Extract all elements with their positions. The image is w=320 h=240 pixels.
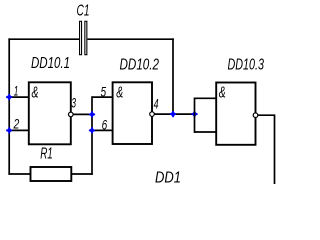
inversion bubble at DD10.3 output — [253, 113, 258, 118]
svg-text:4: 4 — [154, 96, 159, 112]
svg-text:5: 5 — [101, 83, 107, 99]
node: junction dot at gate3 input split — [191, 111, 197, 117]
svg-text:DD10.2: DD10.2 — [120, 57, 160, 74]
wire: gate3 lower input stub — [195, 131, 217, 133]
wire: DD10.1 output to middle rail — [73, 113, 93, 115]
svg-text:C1: C1 — [77, 2, 90, 19]
node: junction dot pin6/middle rail — [89, 127, 95, 133]
svg-text:&: & — [219, 84, 226, 101]
gate U2 DD10.2 body — [113, 82, 152, 144]
wire: pin 2 stub — [9, 129, 29, 131]
capacitor C1 left plate — [80, 21, 82, 54]
svg-text:DD10.1: DD10.1 — [31, 55, 70, 72]
wire: DD10.3 output right then down off-canvas — [258, 115, 275, 184]
wire: top rail right segment (C1 right plate to feedback corner) — [88, 38, 174, 40]
svg-text:3: 3 — [71, 95, 76, 111]
inversion bubble at DD10.2 output — [150, 112, 155, 117]
node: junction dot output3/middle rail — [89, 111, 95, 117]
wire: pin 5 stub — [92, 96, 113, 98]
wire: gate3 upper input stub — [195, 97, 217, 99]
svg-text:DD10.3: DD10.3 — [228, 56, 265, 73]
wire: resistor right to middle rail — [71, 173, 93, 175]
svg-text:&: & — [32, 84, 39, 101]
svg-text:&: & — [116, 84, 123, 101]
svg-text:R1: R1 — [40, 146, 53, 163]
wire: DD10.2 output run to gate3 input split — [154, 113, 194, 115]
wire: middle rail x=92 (pin5 to resistor) — [91, 96, 93, 175]
inversion bubble at DD10.1 output — [69, 112, 74, 117]
svg-text:DD1: DD1 — [155, 170, 181, 184]
wire: left rail x=9 (node A) — [8, 38, 10, 174]
gate U1 DD10.1 body — [29, 82, 71, 144]
wire: feedback vertical drop x=173 to gate2 output net — [172, 38, 174, 114]
capacitor C1 right plate — [85, 21, 87, 54]
node: junction dot at pin 2 on left rail — [6, 127, 12, 133]
wire: top rail left segment (node A to C1 left plate) — [8, 38, 79, 40]
wire: pin 6 stub — [92, 129, 113, 131]
svg-text:2: 2 — [13, 116, 20, 132]
node: junction dot at pin 1 on left rail — [6, 94, 12, 100]
node: junction dot feedback/output net — [170, 111, 176, 117]
gate U3 DD10.3 body — [216, 83, 255, 145]
svg-text:1: 1 — [14, 83, 19, 99]
wire: bottom left run to resistor — [8, 173, 30, 175]
svg-text:6: 6 — [102, 116, 108, 132]
wire: gate3 input tie vertical — [194, 98, 196, 133]
resistor R1 body — [31, 167, 72, 181]
wire: pin 1 stub — [9, 96, 29, 98]
